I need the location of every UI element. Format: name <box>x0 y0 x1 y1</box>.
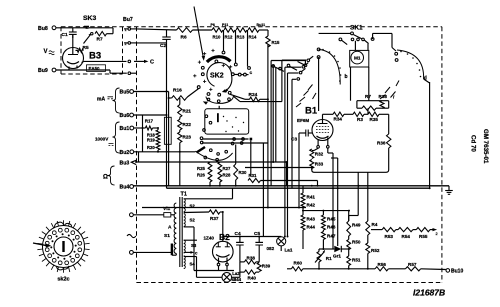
wire <box>184 188 233 199</box>
svg-text:C: C <box>150 60 154 66</box>
wiper wire <box>84 33 94 44</box>
node c <box>234 71 252 76</box>
tube B2 <box>211 241 235 270</box>
resistor R23 <box>178 130 192 186</box>
switch wafer sk2c <box>37 220 89 273</box>
mains switch S1 <box>133 244 176 256</box>
wire <box>421 268 446 271</box>
terminal Bu10 <box>446 269 463 275</box>
svg-text:P11: P11 <box>222 23 228 27</box>
svg-text:R53: R53 <box>385 234 394 239</box>
resistor R31 <box>248 173 318 186</box>
capacitor C2 <box>160 30 171 49</box>
switch SK3 contact <box>84 26 89 28</box>
wire <box>134 127 146 129</box>
switch SK1 contacts <box>319 32 374 50</box>
svg-text:R4: R4 <box>372 222 378 227</box>
wire bus vertical <box>267 45 269 208</box>
resistor R22 <box>178 117 192 130</box>
resistor R41 <box>301 186 315 201</box>
wire <box>235 30 237 63</box>
svg-text:Bu5: Bu5 <box>120 90 130 96</box>
wire bus vertical <box>262 143 264 237</box>
resistor R46 <box>322 223 336 231</box>
wire <box>303 210 349 212</box>
svg-text:R34: R34 <box>334 117 343 122</box>
svg-text:R36: R36 <box>377 141 386 146</box>
svg-text:R27: R27 <box>223 166 231 171</box>
svg-text:Bu2: Bu2 <box>120 150 130 156</box>
svg-text:R14: R14 <box>249 34 257 39</box>
wire <box>424 79 430 188</box>
T1 winding S3 <box>184 240 197 253</box>
svg-text:R45: R45 <box>327 217 336 222</box>
resistor R14 <box>248 28 259 40</box>
mains terminal <box>130 213 134 217</box>
svg-text:Bu3: Bu3 <box>120 161 130 167</box>
svg-text:R23: R23 <box>183 135 192 140</box>
wire cathode loop <box>312 148 389 172</box>
resistor R44 <box>301 223 315 250</box>
resistor R25 <box>197 162 212 172</box>
svg-text:R38: R38 <box>379 94 388 99</box>
resistor R58 <box>240 255 259 264</box>
switch contact 1 <box>124 28 137 32</box>
svg-text:R5: R5 <box>83 45 89 51</box>
wire bus vertical <box>270 61 272 186</box>
wire <box>367 108 369 114</box>
resistor R10 <box>212 28 223 40</box>
wire bus <box>167 187 430 189</box>
svg-text:R16: R16 <box>173 88 182 94</box>
resistor R21 <box>178 98 192 117</box>
terminal Bu8 <box>38 26 56 32</box>
svg-text:R7: R7 <box>365 94 371 99</box>
resistor R49 <box>347 211 361 236</box>
svg-text:R60: R60 <box>294 260 303 265</box>
svg-text:EF6M: EF6M <box>297 118 309 123</box>
svg-text:Bu10: Bu10 <box>451 269 463 275</box>
capacitor C3 <box>291 130 312 143</box>
capacitor C5 <box>254 231 263 262</box>
resistor R60 <box>291 260 302 271</box>
svg-text:R35: R35 <box>370 117 379 122</box>
node C arrow <box>134 60 154 66</box>
svg-text:Bu6: Bu6 <box>120 113 130 119</box>
wire <box>134 151 196 153</box>
resistor R51 <box>347 256 361 269</box>
arrow pointer <box>194 7 205 61</box>
switch SK1 wafer b arc <box>317 48 347 85</box>
wire <box>186 89 198 99</box>
capacitor C4 <box>235 231 244 262</box>
switch SK1 wafer a <box>271 61 307 72</box>
wire <box>367 172 369 221</box>
resistor R42 <box>301 201 315 216</box>
svg-text:c: c <box>250 71 253 76</box>
label GM 7635-01 <box>470 129 490 164</box>
svg-text:R19: R19 <box>147 138 155 143</box>
resistor R19 <box>147 137 160 144</box>
label Vmeas <box>44 49 55 55</box>
wire bottom rail <box>287 268 291 270</box>
mains terminal <box>130 251 134 255</box>
svg-text:SK1: SK1 <box>350 25 363 32</box>
wire staircase D <box>292 78 300 189</box>
resistor R56 <box>375 262 388 271</box>
svg-text:C5: C5 <box>254 231 260 237</box>
SK2 lower wafer <box>203 96 234 109</box>
terminal Bu1 <box>120 126 134 132</box>
resistor R16 <box>169 88 187 101</box>
wire bus vertical <box>275 67 277 162</box>
resistor R37 <box>184 210 223 241</box>
svg-text:R13: R13 <box>237 34 245 39</box>
svg-text:R38: R38 <box>247 255 256 260</box>
svg-text:R25: R25 <box>197 166 205 171</box>
resistor R20 <box>147 143 160 152</box>
svg-text:Cd 70: Cd 70 <box>470 135 477 152</box>
wire <box>135 152 287 186</box>
label B2 <box>204 232 231 242</box>
wire <box>184 257 222 278</box>
svg-text:R28: R28 <box>223 173 231 178</box>
resistor R35 <box>364 112 389 122</box>
T1 primary winding <box>174 203 176 255</box>
wire <box>298 133 300 208</box>
svg-text:R47: R47 <box>327 234 336 239</box>
resistor R3 <box>353 112 364 122</box>
SK2 contacts <box>193 49 250 96</box>
wire <box>318 57 320 111</box>
wire plate output <box>82 60 131 63</box>
svg-text:b: b <box>345 74 348 80</box>
label B1 <box>297 106 318 123</box>
svg-text:A: A <box>168 225 172 231</box>
resistor R17 <box>145 119 158 131</box>
terminal Bu9 <box>38 68 56 74</box>
svg-text:1Z40: 1Z40 <box>204 236 215 241</box>
svg-text:R33: R33 <box>315 162 324 167</box>
svg-text:R12: R12 <box>225 34 233 39</box>
wire <box>56 27 113 29</box>
resistor R50 <box>347 236 361 256</box>
wire <box>56 70 137 74</box>
resistor R40 <box>240 262 259 281</box>
capacitor C1 <box>62 28 77 38</box>
T1 winding S4 <box>184 256 196 269</box>
svg-text:B1: B1 <box>305 106 318 117</box>
svg-text:sk2c: sk2c <box>57 277 69 283</box>
wire top rail <box>137 29 213 43</box>
resistor R28 <box>218 172 231 186</box>
wire ground bus <box>134 185 450 187</box>
T1 winding S2b <box>184 214 196 227</box>
terminal Bu5 <box>120 90 134 96</box>
svg-text:M1: M1 <box>354 56 361 61</box>
resistor R36 <box>377 114 391 148</box>
resistor R13 <box>236 28 247 40</box>
resistor R52 <box>366 235 380 269</box>
svg-text:R15: R15 <box>272 40 280 45</box>
svg-text:R44: R44 <box>307 225 316 230</box>
terminal Bu6 <box>120 113 134 119</box>
svg-text:Bu4: Bu4 <box>120 185 130 191</box>
svg-text:C1: C1 <box>62 32 68 38</box>
svg-text:2: 2 <box>436 232 438 236</box>
wire <box>184 227 211 271</box>
wire staircase B <box>285 63 308 237</box>
svg-text:R30: R30 <box>239 170 247 175</box>
resistor R26 <box>197 172 212 186</box>
svg-text:Vl1: Vl1 <box>163 206 171 212</box>
svg-text:SK2: SK2 <box>210 73 224 80</box>
resistor R33 <box>310 160 324 171</box>
resistor R45 <box>322 211 336 223</box>
svg-text:Gr1: Gr1 <box>333 254 341 259</box>
wire <box>134 114 167 116</box>
resistor R4 <box>366 221 378 235</box>
resistor R2 box <box>164 117 171 144</box>
wire <box>223 30 225 51</box>
svg-text:Bu8: Bu8 <box>38 26 48 32</box>
wire <box>349 172 359 221</box>
lamp La1 <box>267 237 293 253</box>
wire bus vertical <box>166 43 168 188</box>
resistor R6 <box>177 28 193 41</box>
svg-text:R51: R51 <box>352 258 361 263</box>
svg-text:mA: mA <box>97 96 105 102</box>
svg-text:R42: R42 <box>307 203 316 208</box>
svg-text:R22: R22 <box>183 122 192 127</box>
svg-text:S1: S1 <box>164 233 170 239</box>
svg-text:R17: R17 <box>145 119 154 124</box>
resistor R53 <box>371 228 396 240</box>
arrow pointer <box>33 243 51 248</box>
svg-text:La2: La2 <box>232 271 240 276</box>
resistor R55 <box>413 228 438 240</box>
terminal Bu3 <box>120 160 137 166</box>
switch wafer block <box>203 109 249 134</box>
resistor R18 <box>147 130 160 137</box>
svg-text:R32: R32 <box>315 152 324 157</box>
svg-text:I21687B: I21687B <box>413 288 445 298</box>
svg-text:R20: R20 <box>147 145 155 150</box>
fuse Vl1 <box>133 206 174 217</box>
label 1000V <box>95 122 120 153</box>
resistor R5 <box>76 45 89 52</box>
wire <box>303 268 375 270</box>
svg-text:R39: R39 <box>262 264 271 269</box>
svg-text:R1: R1 <box>326 256 332 261</box>
wire <box>202 142 268 144</box>
wire bus vertical <box>168 92 170 187</box>
svg-text:GM 7635-01: GM 7635-01 <box>482 129 489 164</box>
resistor R47 <box>322 230 336 249</box>
svg-text:Bu1: Bu1 <box>120 126 130 132</box>
resistor R32 <box>310 148 324 158</box>
svg-text:R21: R21 <box>183 109 192 114</box>
svg-text:T1: T1 <box>181 191 187 197</box>
label mA <box>97 88 120 113</box>
tube B3 <box>63 34 84 70</box>
resistor R27 <box>218 162 231 172</box>
switch SK2 <box>207 57 232 93</box>
svg-text:R26: R26 <box>197 173 205 178</box>
svg-text:S2: S2 <box>190 218 196 223</box>
transformer T1 <box>180 191 187 267</box>
resistor R43 <box>301 215 315 223</box>
svg-text:R41: R41 <box>307 195 316 200</box>
svg-text:Bu11: Bu11 <box>257 23 266 27</box>
svg-text:R57: R57 <box>408 262 417 267</box>
wire <box>298 132 300 134</box>
svg-text:C4: C4 <box>235 231 241 237</box>
terminal Bu4 <box>120 185 134 191</box>
switch contact 2 <box>124 42 137 46</box>
switch SK1 wafer d arc <box>395 50 427 82</box>
pointer dashes <box>380 81 399 100</box>
label ohm <box>103 166 115 185</box>
meter M1 <box>350 50 369 67</box>
wire bus <box>142 207 306 209</box>
svg-text:SK3: SK3 <box>83 15 96 22</box>
svg-text:V: V <box>44 49 48 55</box>
wire <box>328 148 338 249</box>
contacts row <box>200 137 252 177</box>
tube B1 <box>312 120 333 149</box>
resistor R57 <box>406 262 421 271</box>
resistor R30 <box>234 145 247 186</box>
wire heater <box>184 240 198 255</box>
svg-text:P6: P6 <box>211 23 215 27</box>
resistor R24 <box>230 92 268 101</box>
resistor R39 <box>257 263 270 272</box>
wire <box>245 167 312 169</box>
diode Gr1 <box>319 246 349 259</box>
svg-text:S2: S2 <box>190 204 196 209</box>
label B3 <box>87 51 106 72</box>
wire staircase C <box>288 68 306 236</box>
wire <box>247 30 249 67</box>
svg-text:4844: 4844 <box>232 277 242 282</box>
resistor R12 <box>224 28 235 40</box>
lamp La2 <box>222 271 242 282</box>
svg-text:Bu7: Bu7 <box>123 17 133 23</box>
wire <box>223 236 281 238</box>
wire <box>134 91 169 93</box>
svg-text:R10: R10 <box>213 34 221 39</box>
svg-text:La1: La1 <box>285 248 293 253</box>
wire <box>142 115 144 152</box>
svg-text:R7: R7 <box>97 37 103 43</box>
switch SK2 wafer arc <box>195 141 243 161</box>
resistor R15 <box>266 30 280 47</box>
svg-text:R24: R24 <box>249 92 258 98</box>
svg-text:B3: B3 <box>89 51 101 62</box>
svg-text:R56: R56 <box>378 262 387 267</box>
wire <box>388 268 405 270</box>
resistor R34 <box>323 112 354 121</box>
svg-text:R52: R52 <box>371 248 380 253</box>
terminal Bu2 <box>120 150 134 156</box>
svg-text:Ω: Ω <box>103 175 108 181</box>
svg-text:R43: R43 <box>307 217 316 222</box>
svg-text:1000V: 1000V <box>95 137 109 142</box>
label A S1 <box>164 225 172 240</box>
svg-text:R6: R6 <box>181 35 187 41</box>
svg-text:R46: R46 <box>327 225 336 230</box>
svg-text:R3: R3 <box>357 117 363 122</box>
resistor R7 <box>95 28 113 43</box>
svg-text:R40: R40 <box>248 276 257 281</box>
wire <box>259 29 268 31</box>
svg-text:082: 082 <box>267 246 275 251</box>
ground <box>445 186 453 195</box>
pointer dashes <box>296 85 316 108</box>
wire bus vertical <box>272 64 274 162</box>
resistor R7b <box>357 94 389 110</box>
svg-text:R31: R31 <box>249 173 257 178</box>
svg-text:R37: R37 <box>210 216 219 221</box>
svg-text:R54: R54 <box>402 234 411 239</box>
T1 winding S2 <box>184 199 196 212</box>
label AC <box>127 234 136 237</box>
svg-text:C2: C2 <box>160 43 166 49</box>
svg-text:R49: R49 <box>352 223 361 228</box>
wire <box>351 44 369 101</box>
potentiometer R1 <box>315 249 332 269</box>
resistor R54 <box>396 228 413 240</box>
svg-text:Bu9: Bu9 <box>38 68 48 74</box>
wire <box>373 33 396 51</box>
svg-text:R50: R50 <box>352 240 361 245</box>
resistor R38 <box>379 94 388 108</box>
wire staircase A <box>233 56 313 101</box>
svg-text:R55: R55 <box>419 234 428 239</box>
